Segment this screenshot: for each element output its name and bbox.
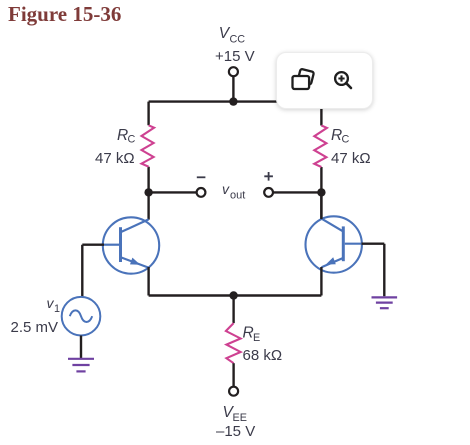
wire left collector branch [147, 102, 149, 220]
wire output minus [149, 191, 197, 193]
node plus junction [317, 188, 325, 196]
label v1 [47, 295, 61, 315]
wire bottom rail [149, 294, 322, 296]
wire Q1 base [82, 245, 104, 297]
label -15 V [216, 423, 255, 440]
wire VCC stub [232, 76, 234, 101]
svg-text:47 kΩ: 47 kΩ [331, 150, 371, 167]
wire output plus [273, 191, 321, 193]
svg-text:+15 V: +15 V [215, 48, 255, 65]
transistor Q2 [306, 216, 362, 272]
icon copy pages [293, 69, 315, 89]
label vout [222, 181, 245, 201]
label plus sign [264, 172, 273, 181]
wire Q2 emitter down [320, 267, 322, 296]
terminal minus [197, 188, 206, 197]
svg-text:Figure 15-36: Figure 15-36 [8, 2, 121, 26]
toolbar overlay [276, 52, 373, 109]
icon zoom in [335, 72, 351, 88]
svg-text:EE: EE [233, 412, 247, 424]
svg-text:C: C [342, 133, 350, 145]
label RE [243, 324, 261, 344]
label VCC [219, 25, 245, 45]
svg-text:C: C [128, 133, 136, 145]
wire v1 to ground [80, 336, 82, 359]
svg-text:47 kΩ: 47 kΩ [95, 150, 135, 167]
ground left [68, 359, 94, 372]
svg-text:2.5 mV: 2.5 mV [11, 319, 59, 336]
label minus sign [197, 176, 206, 178]
svg-text:E: E [253, 332, 260, 344]
node minus junction [144, 188, 152, 196]
wire right collector branch [320, 102, 322, 219]
wire Q2 collector up [320, 192, 322, 219]
svg-text:–15 V: –15 V [216, 423, 255, 440]
label 68 kOhm [243, 347, 283, 364]
node emitter junction [229, 291, 237, 299]
terminal plus [264, 188, 273, 197]
transistor Q1 [103, 217, 159, 273]
wire RE top [232, 296, 234, 324]
resistor RC left [142, 125, 155, 166]
svg-text:68 kΩ: 68 kΩ [243, 347, 283, 364]
wire top rail [149, 100, 322, 102]
resistor RE [226, 323, 241, 363]
label +15 V [215, 48, 255, 65]
wire RE bottom [232, 363, 234, 386]
label 47 kOhm right [331, 150, 371, 167]
svg-text:1: 1 [54, 303, 60, 315]
node VCC junction [229, 97, 237, 105]
terminal VEE [229, 387, 238, 396]
source v1 [62, 297, 101, 336]
label 47 kOhm left [95, 150, 135, 167]
label 2.5 mV [11, 319, 59, 336]
title Figure 15-36 [8, 2, 121, 26]
label VEE [223, 404, 247, 424]
svg-text:CC: CC [230, 34, 246, 46]
svg-text:out: out [230, 189, 245, 201]
wire Q2 base to ground [362, 244, 385, 297]
label RC right [331, 127, 350, 146]
resistor RC right [314, 126, 327, 168]
label RC left [117, 127, 136, 146]
terminal VCC [229, 67, 238, 76]
wire Q1 emitter down [147, 267, 149, 296]
svg-text:v: v [222, 181, 230, 197]
ground right [372, 297, 398, 308]
